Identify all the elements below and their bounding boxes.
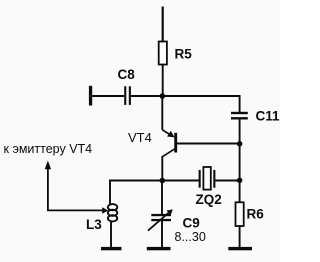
wire C11 to node B bbox=[239, 120, 241, 145]
wire node A to right corner bbox=[162, 95, 239, 97]
inductor L3 loops bbox=[108, 204, 117, 210]
wire C9 to ground bbox=[161, 221, 163, 248]
svg-text:к эмиттеру VT4: к эмиттеру VT4 bbox=[4, 142, 93, 156]
wire node C to R6 bbox=[239, 180, 241, 202]
transistor VT4 base lead wire bbox=[177, 143, 240, 145]
wire R5 to node A bbox=[162, 65, 164, 97]
wire C8 to node A bbox=[131, 95, 162, 97]
variable capacitor C9 bbox=[151, 214, 171, 216]
wire node B down to node C bbox=[239, 144, 241, 181]
terminal input bar bbox=[89, 86, 92, 106]
svg-text:VT4: VT4 bbox=[128, 130, 152, 145]
svg-text:C8: C8 bbox=[118, 67, 136, 82]
wire node D to C9 bbox=[161, 181, 163, 215]
wire R6 to ground bbox=[239, 226, 241, 248]
transistor VT4 collector diagonal bbox=[162, 149, 175, 157]
svg-text:R6: R6 bbox=[247, 207, 265, 222]
node D junction dot bbox=[160, 178, 166, 184]
capacitor C8 bbox=[124, 86, 126, 105]
resistor R6 bbox=[236, 202, 244, 226]
transistor VT4 emitter diagonal with arrow bbox=[162, 130, 171, 136]
wire tap to L3 bbox=[47, 209, 104, 211]
resistor R5 bbox=[159, 42, 167, 65]
ground under L3 bbox=[101, 247, 122, 250]
wire L3 to ground bbox=[110, 221, 112, 249]
transistor VT4 emitter wire bbox=[161, 96, 163, 130]
capacitor C11 bbox=[231, 112, 248, 114]
wire ZQ2 to node C bbox=[215, 180, 239, 182]
wire bottom L3 corner to ZQ2 bbox=[110, 181, 199, 205]
variable capacitor C9 arrow bbox=[148, 211, 170, 230]
node C junction dot bbox=[237, 178, 243, 184]
ground under C9 bbox=[147, 247, 171, 250]
svg-text:C9: C9 bbox=[183, 215, 200, 230]
svg-text:R5: R5 bbox=[175, 47, 193, 62]
svg-text:8...30: 8...30 bbox=[175, 230, 206, 244]
node B junction dot bbox=[237, 141, 243, 147]
wire terminal to C8 bbox=[91, 95, 124, 97]
tap arrow up bbox=[47, 166, 49, 211]
tap arrowhead into coil bbox=[102, 207, 108, 213]
wire collector down to node D bbox=[161, 156, 163, 181]
ground under R6 bbox=[228, 247, 252, 250]
wire supply top bbox=[162, 7, 164, 43]
transistor VT4 base bar bbox=[174, 133, 177, 153]
wire corner down to C11 bbox=[239, 95, 241, 112]
node A junction dot bbox=[160, 93, 166, 99]
svg-text:C11: C11 bbox=[256, 109, 281, 124]
crystal ZQ2 bbox=[199, 170, 201, 188]
svg-text:L3: L3 bbox=[86, 217, 102, 232]
svg-text:ZQ2: ZQ2 bbox=[196, 192, 222, 207]
